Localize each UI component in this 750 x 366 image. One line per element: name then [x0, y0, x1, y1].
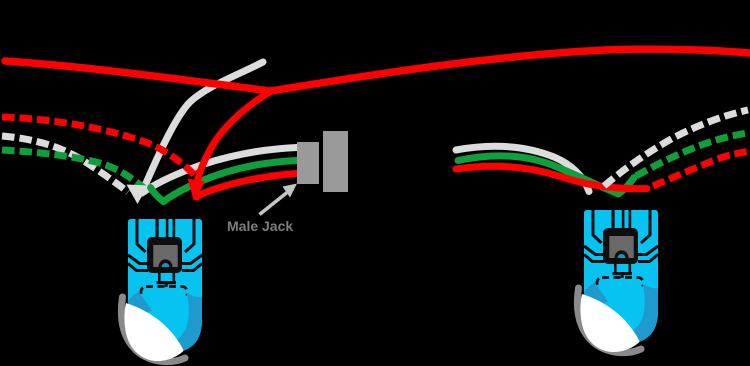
svg-text:Male Jack: Male Jack — [227, 218, 293, 234]
